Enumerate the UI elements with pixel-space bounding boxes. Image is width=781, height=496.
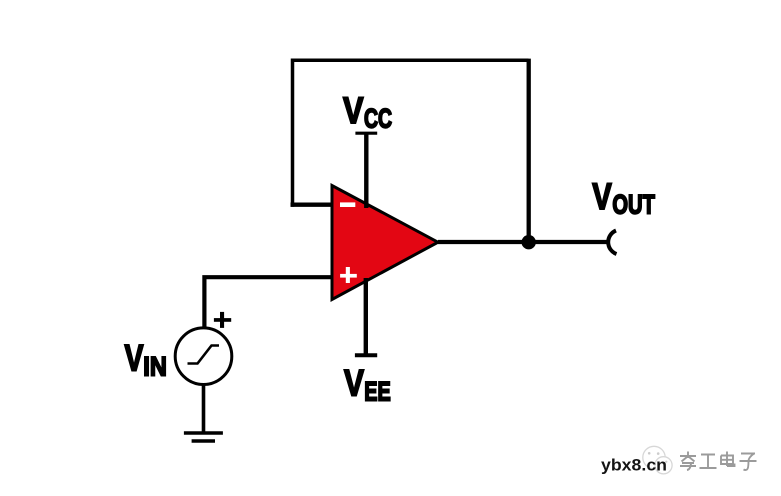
watermark text li-gong-dian-zi (hand drawn glyphs): [680, 452, 757, 471]
svg-text:V: V: [344, 362, 364, 403]
char dian: [721, 452, 735, 467]
wire feedback vertical drop to output node: [527, 59, 531, 243]
VCC supply terminal (T bar and pin wire): [355, 133, 377, 208]
output terminal arc: [608, 231, 616, 255]
source VIN (circle with slew waveform): [175, 328, 232, 385]
svg-text:V: V: [592, 176, 612, 217]
svg-text:V: V: [343, 90, 364, 131]
label VCC: [343, 90, 392, 134]
char zi: [740, 454, 757, 471]
svg-text:CC: CC: [364, 104, 392, 134]
label VIN: [125, 338, 167, 382]
svg-text:IN: IN: [143, 352, 167, 382]
op-amp U1: [332, 186, 438, 300]
wire VIN to ground: [202, 384, 206, 433]
junction dot at output node: [522, 235, 536, 249]
waveform symbol inside VIN: [188, 346, 220, 364]
op-amp plus sign (non-inverting input marker): [340, 267, 357, 283]
svg-text:ybx8.cn: ybx8.cn: [601, 455, 667, 474]
svg-text:V: V: [125, 338, 144, 379]
wire inverting input: [291, 203, 335, 207]
svg-text:EE: EE: [364, 376, 391, 406]
watermark logo (faint chat bubbles): [643, 446, 672, 474]
char li: [680, 452, 696, 471]
label VOUT: [592, 176, 655, 220]
ground: [184, 433, 223, 441]
op-amp minus sign (inverting input marker): [340, 202, 355, 207]
VEE supply terminal (pin wire and T bar): [355, 278, 377, 355]
svg-text:OUT: OUT: [612, 190, 655, 220]
char gong: [700, 455, 717, 469]
wire output: [438, 240, 610, 244]
wire non-inverting input from VIN: [204, 277, 334, 328]
plus polarity mark of VIN: [214, 312, 231, 328]
wire feedback loop from output to inverting input: [293, 60, 529, 207]
label VEE: [344, 362, 391, 406]
